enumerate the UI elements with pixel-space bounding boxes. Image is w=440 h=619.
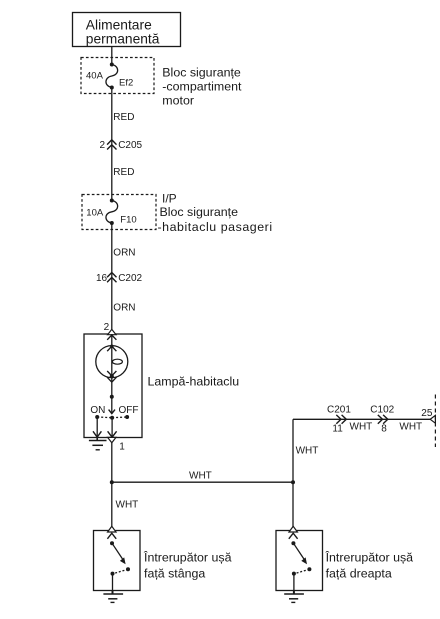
- svg-text:WHT: WHT: [350, 422, 373, 433]
- svg-text:Întrerupător ușă: Întrerupător ușă: [143, 549, 232, 564]
- node: junction dot right: [291, 480, 295, 484]
- lamp pin 1 exit chevron: [108, 437, 116, 442]
- switch center branch to pin 1: [108, 418, 117, 438]
- svg-text:WHT: WHT: [189, 470, 212, 481]
- label: Intrerupator usa fata dreapta: [325, 549, 414, 580]
- wire WHT: top right horizontal to connector 25: [293, 418, 432, 420]
- svg-text:Bloc siguranțe: Bloc siguranțe: [160, 205, 239, 219]
- svg-text:RED: RED: [113, 167, 134, 178]
- svg-text:WHT: WHT: [116, 500, 139, 511]
- svg-text:RED: RED: [113, 112, 134, 123]
- svg-text:ORN: ORN: [113, 248, 135, 259]
- lamp unit box: [84, 334, 142, 438]
- fuse F10 10A: [86, 199, 136, 226]
- svg-text:Ef2: Ef2: [119, 78, 133, 89]
- svg-text:WHT: WHT: [296, 446, 319, 457]
- switch contacts: [95, 415, 129, 420]
- svg-text:16: 16: [96, 273, 108, 284]
- switch ON/OFF labels and arrow: [90, 397, 138, 416]
- wire ORN: fuse F10 to lamp: [112, 223, 136, 334]
- svg-text:ORN: ORN: [113, 303, 135, 314]
- svg-text:Lampă-habitaclu: Lampă-habitaclu: [148, 374, 240, 388]
- svg-text:Întrerupător ușă: Întrerupător ușă: [325, 549, 414, 564]
- node: junction dot left: [110, 480, 114, 484]
- wire RED: fuse Ef2 to fuse F10: [112, 88, 135, 201]
- wire WHT: horizontal junction line: [112, 470, 293, 482]
- page edge dashed line: [434, 395, 436, 448]
- svg-text:8: 8: [381, 423, 387, 434]
- svg-text:C201: C201: [327, 404, 351, 415]
- svg-text:permanentă: permanentă: [86, 32, 160, 47]
- fuse box: I/P passenger compartment (dashed): [82, 195, 156, 230]
- ground (left door switch): [103, 591, 123, 603]
- svg-text:ON: ON: [90, 405, 105, 416]
- connector 25 page edge: [421, 408, 435, 423]
- svg-text:11: 11: [332, 424, 343, 435]
- wire inside lamp (top): [111, 334, 113, 397]
- lamp pin 2 entry chevron: [107, 329, 116, 340]
- right door switch box: [276, 531, 323, 591]
- svg-text:C102: C102: [370, 404, 394, 415]
- svg-text:2: 2: [100, 140, 106, 151]
- svg-text:față dreapta: față dreapta: [326, 566, 392, 580]
- left door switch entry chevron: [107, 526, 116, 539]
- fuse box: engine compartment (dashed): [81, 58, 154, 94]
- svg-text:Bloc siguranțe: Bloc siguranțe: [162, 65, 241, 79]
- label: I/P Bloc sigurante -habitaclu pasageri: [158, 192, 273, 235]
- svg-text:motor: motor: [162, 93, 194, 107]
- svg-text:I/P: I/P: [162, 192, 177, 206]
- connector C202 pin 16: [96, 273, 143, 284]
- lamp bulb circle: [96, 345, 128, 383]
- svg-text:C205: C205: [118, 140, 142, 151]
- svg-text:OFF: OFF: [119, 405, 139, 416]
- svg-text:Alimentare: Alimentare: [86, 17, 152, 32]
- svg-text:40A: 40A: [86, 71, 104, 82]
- svg-text:10A: 10A: [86, 208, 104, 219]
- right door switch contacts: [291, 541, 311, 590]
- fuse Ef2 40A: [86, 63, 133, 90]
- connector C102 pin 8: [370, 404, 394, 434]
- wire: power box to fuse Ef2: [111, 47, 113, 65]
- svg-text:1: 1: [119, 442, 125, 453]
- connector C201 pin 11: [327, 404, 351, 434]
- svg-text:F10: F10: [120, 214, 136, 225]
- ground (right door switch): [284, 591, 304, 603]
- left door switch box: [94, 531, 141, 591]
- svg-text:-compartiment: -compartiment: [162, 79, 242, 93]
- svg-text:2: 2: [104, 322, 110, 333]
- svg-text:-habitaclu pasageri: -habitaclu pasageri: [158, 220, 273, 234]
- ground (lamp internal): [89, 438, 107, 450]
- switch ON branch to ground: [93, 417, 101, 437]
- right door switch entry chevron: [289, 526, 298, 539]
- connector C205 pin 2: [100, 140, 143, 151]
- node: wire junction dot above switch: [110, 395, 114, 399]
- left door switch contacts: [110, 541, 130, 590]
- power source box: Alimentare permanenta: [73, 13, 181, 47]
- svg-text:25: 25: [421, 408, 433, 419]
- svg-text:WHT: WHT: [399, 422, 422, 433]
- label: Bloc sigurante -compartiment motor: [162, 65, 242, 107]
- wire WHT: right vertical branch: [293, 419, 318, 530]
- svg-text:față stânga: față stânga: [144, 566, 205, 580]
- label: Intrerupator usa fata stanga: [143, 549, 232, 580]
- svg-text:C202: C202: [118, 273, 142, 284]
- wire WHT: lamp pin 1 to left door switch: [112, 443, 138, 531]
